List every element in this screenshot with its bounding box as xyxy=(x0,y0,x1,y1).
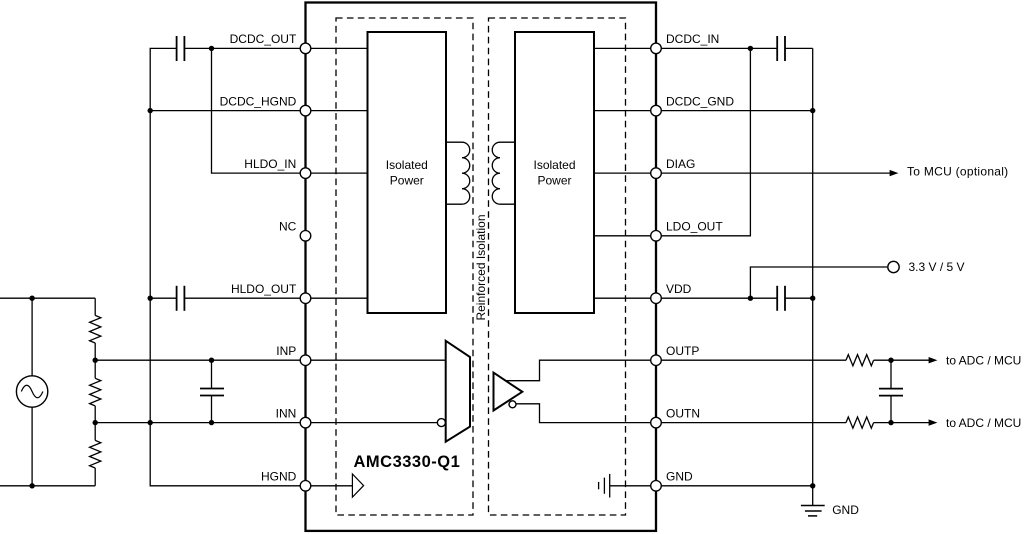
HGND internal arrow buffer xyxy=(352,474,363,497)
left isolation dashed box xyxy=(336,18,473,515)
isolation amplifier U1 xyxy=(494,373,523,411)
wire rail to C2 xyxy=(150,297,176,299)
wire VDD pin to C5 xyxy=(656,297,777,299)
resistor R4 xyxy=(846,355,874,366)
wire DCDC_IN pin to C4 xyxy=(656,47,777,49)
wire OUTP to C6 xyxy=(890,360,892,388)
pin DCDC_IN xyxy=(651,43,662,54)
wire GND pin to right rail xyxy=(656,485,813,487)
transformer primary winding xyxy=(446,142,470,204)
supply terminal 3.3 V / 5 V xyxy=(888,261,899,272)
right rail wire down to ground xyxy=(812,48,814,505)
wire C1 to DCDC_OUT pin xyxy=(184,47,305,49)
wire DCDC_OUT to HLDO_IN xyxy=(212,48,306,173)
capacitor C3 input filter xyxy=(200,389,224,396)
junction VDD / supply xyxy=(748,296,753,301)
wire amplifier to OUTP pin xyxy=(506,360,656,381)
junction source bottom xyxy=(29,483,34,488)
svg-text:LDO_OUT: LDO_OUT xyxy=(666,220,723,234)
junction DCDC_GND / right rail xyxy=(810,108,815,113)
junction source top xyxy=(29,296,34,301)
right isolation dashed box xyxy=(489,18,626,515)
wire R4 to ADC arrow xyxy=(874,359,930,361)
junction INN / C3 xyxy=(209,420,214,425)
pin DCDC_GND xyxy=(651,105,662,116)
wire source bottom loop xyxy=(0,407,95,486)
pin DCDC_HGND xyxy=(300,105,311,116)
resistor R3 xyxy=(90,440,101,468)
wire C4 to right rail xyxy=(785,47,813,49)
svg-text:Isolated: Isolated xyxy=(533,158,575,172)
wire R2 to R3 xyxy=(94,406,96,441)
ground symbol GND xyxy=(801,506,825,516)
wire HLDO_IN pin to left power block xyxy=(306,172,368,174)
capacitor C5 at VDD xyxy=(777,286,785,311)
svg-text:Power: Power xyxy=(390,173,424,187)
wire VDD pin to right power block xyxy=(594,297,656,299)
junction divider INN xyxy=(93,420,98,425)
wire DCDC_HGND pin to left power block xyxy=(306,110,368,112)
wire amplifier bubble to OUTN pin xyxy=(516,404,656,423)
pin DCDC_OUT xyxy=(300,43,311,54)
wire C3 to INN xyxy=(211,396,213,423)
wire C6 to OUTN xyxy=(890,396,892,423)
svg-text:OUTP: OUTP xyxy=(666,344,699,358)
capacitor C4 at DCDC_IN xyxy=(777,36,785,61)
pin LDO_OUT xyxy=(651,231,662,242)
svg-text:Reinforced Isolation: Reinforced Isolation xyxy=(474,214,488,320)
wire INN internal xyxy=(306,422,438,424)
left Isolated Power block xyxy=(368,32,447,313)
wire source top loop xyxy=(0,298,95,376)
svg-text:GND: GND xyxy=(832,503,859,517)
svg-text:DCDC_IN: DCDC_IN xyxy=(666,32,719,46)
svg-text:DIAG: DIAG xyxy=(666,157,695,171)
junction DCDC_HGND / rail xyxy=(148,108,153,113)
wire C2 to HLDO_OUT pin xyxy=(184,297,305,299)
svg-text:DCDC_GND: DCDC_GND xyxy=(666,94,734,108)
amplifier output bubble xyxy=(509,401,516,408)
wire LDO_OUT pin to right power block xyxy=(594,235,656,237)
svg-text:Power: Power xyxy=(537,173,571,187)
svg-text:HLDO_IN: HLDO_IN xyxy=(244,157,296,171)
resistor R5 xyxy=(846,417,874,428)
wire DCDC_IN pin to right power block xyxy=(594,47,656,49)
junction VDD / right rail xyxy=(810,296,815,301)
wire DCDC_OUT pin to left power block xyxy=(306,47,368,49)
wire DCDC_GND to right rail xyxy=(656,110,813,112)
pin GND xyxy=(651,481,662,492)
resistor R2 xyxy=(90,378,101,406)
pin NC xyxy=(300,231,311,242)
junction DCDC_IN / LDO_OUT xyxy=(748,46,753,51)
svg-text:HGND: HGND xyxy=(261,470,297,484)
wire resistor chain top lead xyxy=(94,298,96,315)
pin DIAG xyxy=(651,168,662,179)
wire DIAG to MCU xyxy=(656,172,890,174)
pin HGND xyxy=(300,481,311,492)
svg-text:AMC3330-Q1: AMC3330-Q1 xyxy=(354,453,461,471)
wire DCDC_GND pin to right power block xyxy=(594,110,656,112)
svg-text:To MCU (optional): To MCU (optional) xyxy=(907,165,1008,179)
pin OUTP xyxy=(651,355,662,366)
internal ground symbol at GND pin xyxy=(599,474,656,498)
delta-sigma modulator xyxy=(446,341,470,442)
wire INN external xyxy=(95,422,305,424)
svg-text:GND: GND xyxy=(666,470,693,484)
wire HLDO_OUT pin to left power block xyxy=(306,297,368,299)
junction GND / right rail xyxy=(810,483,815,488)
wire DCDC_IN to LDO_OUT xyxy=(656,48,750,235)
wire INP external xyxy=(95,359,305,361)
pin INP xyxy=(300,355,311,366)
arrowhead OUTN to ADC xyxy=(929,419,938,425)
svg-text:NC: NC xyxy=(279,220,297,234)
wire INP to C3 xyxy=(211,360,213,388)
wire R5 to ADC arrow xyxy=(874,422,930,424)
junction OUTP / C6 xyxy=(888,358,893,363)
junction HLDO_OUT cap / rail xyxy=(148,296,153,301)
left rail wire from C1 down to HGND pin xyxy=(150,48,305,485)
modulator input bubble xyxy=(437,419,445,427)
junction DCDC_OUT / HLDO_IN xyxy=(209,46,214,51)
svg-text:HLDO_OUT: HLDO_OUT xyxy=(231,282,297,296)
svg-text:OUTN: OUTN xyxy=(666,406,700,420)
transformer secondary winding xyxy=(492,142,514,204)
svg-text:INP: INP xyxy=(276,344,296,358)
capacitor C2 at HLDO_OUT xyxy=(177,286,185,311)
junction INN / rail xyxy=(148,420,153,425)
wire DIAG pin to right power block xyxy=(594,172,656,174)
svg-text:to ADC / MCU: to ADC / MCU xyxy=(946,416,1021,430)
wire DCDC_HGND to left rail xyxy=(150,110,305,112)
pin HLDO_IN xyxy=(300,168,311,179)
wire C5 to right rail xyxy=(785,297,813,299)
capacitor C6 output filter xyxy=(879,389,903,396)
pin HLDO_OUT xyxy=(300,293,311,304)
wire R1 to R2 xyxy=(94,343,96,378)
svg-text:DCDC_HGND: DCDC_HGND xyxy=(220,94,297,108)
wire supply terminal to VDD xyxy=(750,267,887,298)
junction divider INP xyxy=(93,358,98,363)
pin OUTN xyxy=(651,417,662,428)
voltage source V1 xyxy=(16,376,47,407)
svg-text:DCDC_OUT: DCDC_OUT xyxy=(230,32,297,46)
wire R3 bottom lead xyxy=(94,468,96,486)
wire OUTP pin to R4 xyxy=(656,359,846,361)
svg-text:3.3 V / 5 V: 3.3 V / 5 V xyxy=(909,260,965,274)
svg-text:VDD: VDD xyxy=(666,282,692,296)
right Isolated Power block xyxy=(515,32,594,313)
junction OUTN / C6 xyxy=(888,420,893,425)
arrowhead OUTP to ADC xyxy=(929,357,938,363)
IC body AMC3330-Q1 outline xyxy=(306,3,657,531)
svg-text:INN: INN xyxy=(276,406,297,420)
pin VDD xyxy=(651,293,662,304)
pin INN xyxy=(300,417,311,428)
svg-text:to ADC / MCU: to ADC / MCU xyxy=(946,353,1021,367)
wire OUTN pin to R5 xyxy=(656,422,846,424)
junction INP / C3 xyxy=(209,358,214,363)
svg-text:Isolated: Isolated xyxy=(386,158,428,172)
capacitor C1 at DCDC_OUT xyxy=(177,36,185,61)
resistor R1 xyxy=(90,315,101,343)
wire HGND pin to internal arrow xyxy=(306,485,353,487)
arrowhead DIAG xyxy=(890,170,899,176)
wire INP internal xyxy=(306,359,446,361)
